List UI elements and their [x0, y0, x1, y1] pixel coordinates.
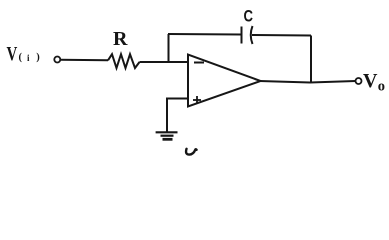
label Vi — [7, 43, 41, 65]
terminal Vo — [356, 78, 362, 84]
label Vo — [363, 70, 385, 94]
resistor R — [108, 54, 140, 68]
wire feedback vertical right — [310, 36, 312, 83]
op-amp non-inverting input marker — [193, 96, 201, 104]
op-amp U1 — [188, 55, 261, 107]
wire feedback top — [168, 33, 242, 36]
svg-text:(: ( — [19, 52, 23, 63]
wire resistor to op-amp — [140, 61, 189, 63]
wire non-inverting input — [167, 99, 188, 132]
op-amp inverting input marker — [194, 62, 204, 64]
svg-text:R: R — [113, 28, 128, 50]
capacitor C — [242, 26, 253, 44]
annotation mark — [186, 149, 197, 155]
svg-text:V: V — [7, 43, 18, 65]
wire output — [260, 81, 356, 83]
terminal Vi — [54, 57, 60, 63]
wire input — [60, 59, 109, 62]
wire feedback right — [252, 34, 311, 37]
wire feedback vertical left — [168, 34, 170, 62]
svg-text:): ) — [36, 52, 40, 63]
ground — [156, 132, 178, 139]
svg-text:o: o — [378, 78, 385, 94]
svg-text:C: C — [244, 7, 254, 25]
svg-text:V: V — [363, 70, 378, 92]
